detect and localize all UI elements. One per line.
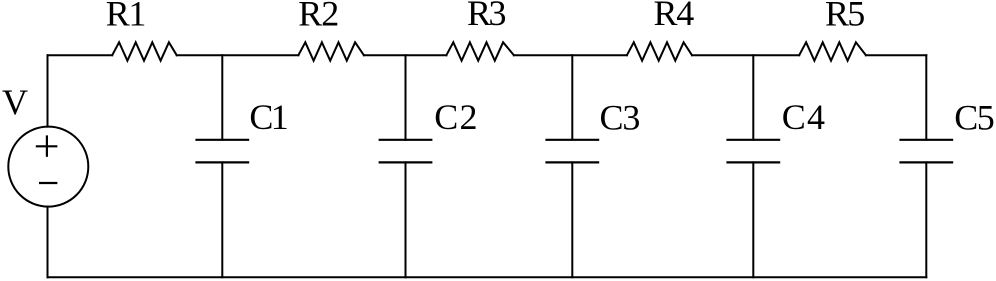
svg-text:C: C — [954, 98, 978, 138]
svg-text:R: R — [298, 0, 322, 33]
svg-text:C: C — [782, 97, 806, 137]
svg-text:1: 1 — [271, 97, 289, 137]
svg-text:V: V — [2, 82, 28, 122]
svg-text:3: 3 — [489, 0, 507, 33]
svg-text:R: R — [825, 0, 849, 33]
svg-text:C: C — [434, 97, 458, 137]
svg-text:2: 2 — [460, 97, 478, 137]
svg-text:4: 4 — [807, 97, 825, 137]
svg-text:3: 3 — [622, 97, 640, 137]
svg-text:R: R — [106, 0, 130, 33]
svg-text:R: R — [654, 0, 678, 33]
svg-text:5: 5 — [977, 98, 995, 138]
svg-text:5: 5 — [847, 0, 865, 33]
svg-text:1: 1 — [128, 0, 146, 33]
svg-text:2: 2 — [321, 0, 339, 33]
svg-text:C: C — [600, 97, 624, 137]
svg-text:R: R — [467, 0, 491, 33]
svg-text:4: 4 — [676, 0, 694, 33]
